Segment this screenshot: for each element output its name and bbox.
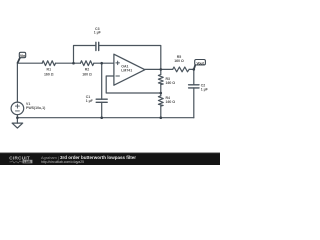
logo CircuitLab wordmark [9,156,32,164]
wire V1 top lead [16,63,18,102]
ground symbol [12,123,23,128]
wire bottom rail [17,117,193,119]
op-amp plus input mark [116,61,120,65]
svg-text:http://circuitlab.com/c4qya25: http://circuitlab.com/c4qya25 [41,160,84,164]
op-amp U1 triangle [114,54,145,85]
svg-text:Vout: Vout [196,61,204,65]
Vout node junction dot [193,68,196,71]
resistor R1 [42,61,55,66]
node Vout flag [194,60,206,70]
wire output node to R3 [160,69,162,74]
wire node A up to top feedback row [74,46,96,64]
wire C3 to output node column [99,46,161,70]
C1 rail junction dot [100,116,103,119]
V1 minus sign [15,110,19,112]
voltage source V1 [11,102,24,115]
svg-text:1 µF: 1 µF [201,88,209,92]
capacitor C2 [189,85,199,88]
V1 plus sign [15,104,19,108]
V1 ground rail junction dot [16,116,19,119]
footer signature bar [0,153,220,165]
R4 rail junction dot [160,116,163,119]
resistor R3 [158,75,163,85]
svg-text:160 Ω: 160 Ω [166,100,176,104]
svg-text:Vin: Vin [20,54,25,58]
node B junction dot [100,62,103,65]
svg-text:PWS(10u,1): PWS(10u,1) [26,106,45,110]
capacitor C1 [96,99,107,102]
wire node B down to C1 [101,63,103,99]
wire C1 to bottom rail [101,102,103,117]
wire R3 to feedback node [160,85,162,96]
node Vin flag [17,52,25,63]
svg-text:LM741: LM741 [121,69,132,73]
wire inverting input feedback route [106,76,161,93]
svg-text:LAB: LAB [24,160,32,164]
svg-text:160 Ω: 160 Ω [174,59,184,63]
svg-text:160 Ω: 160 Ω [44,72,54,76]
svg-text:1 µF: 1 µF [94,31,102,35]
feedback node junction dot [160,92,163,95]
wire Vin corner to R1 and main input row [17,62,42,64]
svg-text:160 Ω: 160 Ω [166,81,176,85]
node A junction dot [72,62,75,65]
resistor R5 [173,67,189,72]
svg-text:R1: R1 [47,68,52,72]
wire R2 to op-amp non-inverting input [94,62,114,64]
wire op-amp output row [145,68,173,70]
resistor R2 [80,61,93,66]
wire V1 bottom lead to ground [16,115,18,123]
svg-text:160 Ω: 160 Ω [82,72,92,76]
output node junction dot [160,68,163,71]
wire R1 to R2 [56,62,81,64]
svg-text:R2: R2 [85,68,90,72]
wire R5 to Vout node [189,68,194,70]
svg-text:1 µF: 1 µF [86,99,94,103]
op-amp minus input mark [116,75,120,77]
resistor R4 [158,96,163,106]
wire Vout node down to C2 [193,69,195,84]
capacitor C3 [96,42,99,50]
wire C2 to bottom rail corner [193,88,195,118]
wire R4 to bottom rail [160,106,162,118]
